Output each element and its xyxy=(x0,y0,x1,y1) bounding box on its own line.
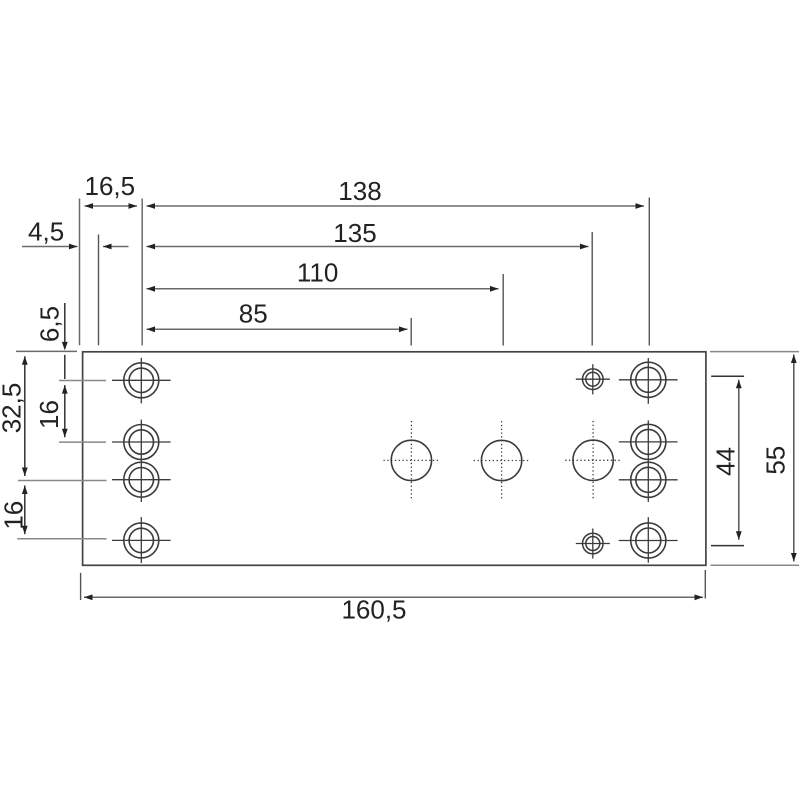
dimension 16 lower xyxy=(24,486,26,535)
svg-text:6,5: 6,5 xyxy=(35,306,65,342)
extension line bottom right 55 xyxy=(711,564,800,566)
svg-text:4,5: 4,5 xyxy=(28,217,64,247)
small hole S2 right xyxy=(576,529,610,559)
extension line left hole H1 xyxy=(59,380,106,382)
dimension 32,5 xyxy=(24,356,26,476)
circle M1 middle xyxy=(384,421,440,500)
dimension 6,5 xyxy=(64,303,66,349)
extension line left hole H2 xyxy=(59,441,106,443)
svg-text:135: 135 xyxy=(333,218,376,248)
circle M2 middle xyxy=(474,421,530,500)
dimension 110 xyxy=(147,288,499,290)
extension line bottom right xyxy=(704,570,706,599)
svg-text:16,5: 16,5 xyxy=(84,171,135,201)
extension line plate left edge xyxy=(79,199,81,346)
svg-text:44: 44 xyxy=(710,447,740,476)
dimension 44 xyxy=(738,380,740,540)
dimension 55 xyxy=(793,355,795,562)
extension line circle M2 xyxy=(502,274,504,346)
hole H2 left column xyxy=(112,425,171,460)
small hole S1 right xyxy=(576,364,610,394)
svg-text:16: 16 xyxy=(34,400,64,429)
extension line bottom left xyxy=(80,573,82,600)
extension line left hole H3 xyxy=(18,480,107,482)
extension line 44 bottom xyxy=(711,545,744,547)
svg-text:85: 85 xyxy=(239,299,268,329)
dimension 4,5 xyxy=(22,246,78,248)
extension line 4,5 reference xyxy=(98,235,100,346)
extension line left hole column xyxy=(141,199,143,346)
plate outline xyxy=(83,352,706,566)
svg-text:16: 16 xyxy=(0,501,28,530)
dimension 85 xyxy=(147,328,408,330)
extension line small hole column xyxy=(591,232,593,346)
extension line circle M1 xyxy=(410,318,412,346)
svg-text:110: 110 xyxy=(297,257,338,287)
hole H3 left column xyxy=(112,420,171,502)
extension line 44 top xyxy=(711,375,744,377)
extension line right hole column xyxy=(648,198,650,346)
hole R2 right column xyxy=(619,424,678,459)
dimension 160,5 xyxy=(84,596,703,598)
svg-text:160,5: 160,5 xyxy=(341,595,406,625)
hole R1 right column xyxy=(619,358,678,404)
svg-text:55: 55 xyxy=(760,446,790,475)
dimension 138 xyxy=(147,205,645,207)
svg-text:138: 138 xyxy=(338,176,381,206)
dimension 16 upper xyxy=(64,385,66,437)
circle M3 middle xyxy=(565,421,621,500)
hole H4 left column xyxy=(112,517,171,563)
hole H1 left column xyxy=(112,358,171,404)
dimension 16,5 xyxy=(85,205,138,207)
dimension 135 xyxy=(147,246,589,248)
hole R3 right column xyxy=(619,420,678,502)
hole R4 right column xyxy=(619,517,678,563)
extension line top right 55 xyxy=(710,351,799,353)
extension line top-left corner xyxy=(16,350,77,352)
extension line left hole H4 xyxy=(17,538,106,540)
svg-text:32,5: 32,5 xyxy=(0,383,27,434)
